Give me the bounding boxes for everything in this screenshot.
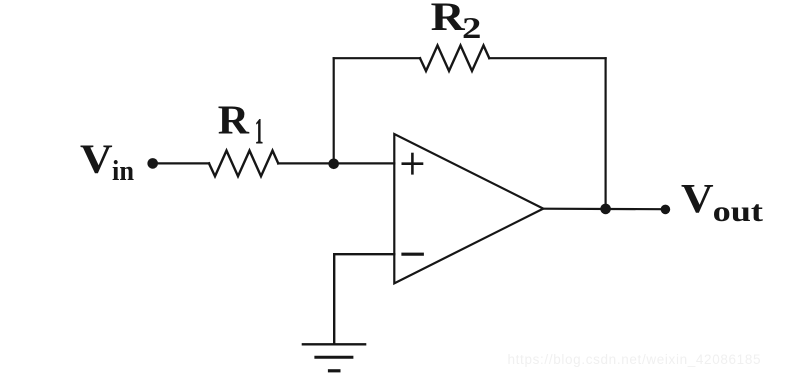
node junction A dot xyxy=(328,159,339,170)
wire feedback top right xyxy=(489,57,605,59)
wire R1 to op-amp + input xyxy=(278,162,394,164)
wire feedback down to output node xyxy=(604,58,606,209)
svg-text:1: 1 xyxy=(255,111,264,152)
wire op-amp output to Vout xyxy=(543,208,660,211)
resistor R2 xyxy=(420,45,489,71)
op-amp U1 xyxy=(394,134,543,283)
wire junction A up to feedback xyxy=(333,58,335,164)
label R1 xyxy=(218,96,264,152)
svg-text:out: out xyxy=(713,195,763,228)
node Vin terminal dot xyxy=(147,158,158,169)
label Vin xyxy=(80,135,134,187)
wire feedback top left xyxy=(334,57,420,59)
svg-text:V: V xyxy=(80,135,113,181)
ground xyxy=(303,344,365,371)
svg-text:2: 2 xyxy=(462,10,481,45)
op-amp + pin symbol xyxy=(403,154,422,173)
wire Vin to R1 xyxy=(153,162,210,164)
svg-text:R: R xyxy=(431,0,466,39)
svg-text:in: in xyxy=(112,156,134,187)
node output junction dot xyxy=(600,204,611,215)
node Vout terminal dot xyxy=(661,205,671,215)
wire - input to ground xyxy=(334,254,394,344)
svg-text:R: R xyxy=(218,96,250,142)
label Vout xyxy=(681,175,763,228)
resistor R1 xyxy=(209,151,278,177)
label R2 xyxy=(431,0,482,45)
svg-text:https://blog.csdn.net/weixin_4: https://blog.csdn.net/weixin_42086185 xyxy=(508,352,761,367)
op-amp - pin symbol xyxy=(403,253,422,256)
svg-text:V: V xyxy=(681,175,714,221)
